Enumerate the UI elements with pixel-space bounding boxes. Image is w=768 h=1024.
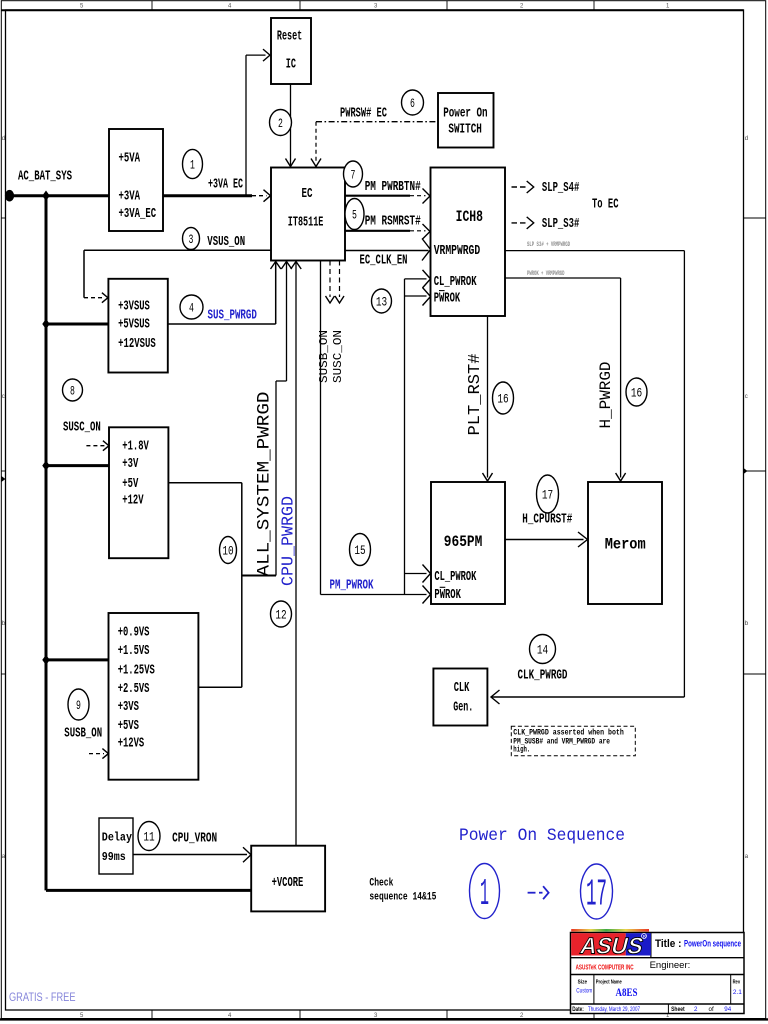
svg-text:9: 9 [76, 698, 81, 713]
svg-text:Title :: Title : [655, 938, 681, 950]
svg-text:PWROK: PWROK [434, 587, 461, 603]
block: 965PM northbridge [431, 482, 505, 604]
svg-text:965PM: 965PM [444, 533, 483, 551]
svg-text:15: 15 [354, 543, 365, 558]
svg-text:11: 11 [143, 829, 154, 844]
svg-text:VSUS_ON: VSUS_ON [207, 234, 245, 250]
svg-text:of: of [709, 1006, 714, 1013]
svg-text:+12V: +12V [122, 493, 144, 509]
svg-text:17: 17 [586, 874, 607, 917]
sequence bubble 16 (H_PWRGD) [626, 378, 647, 406]
svg-text:c: c [2, 394, 5, 400]
svg-text:PWROK: PWROK [434, 290, 461, 306]
wire: +1.8V block output [168, 482, 241, 484]
sequence bubble 4 [180, 295, 203, 319]
svg-text:+2.5VS: +2.5VS [118, 681, 150, 697]
svg-text:PWRSW# EC: PWRSW# EC [340, 106, 387, 122]
net label: ALL_SYSTEM_PWRGD (rotated) [254, 392, 274, 577]
wire: CLK_PWRGD into CLK Gen [492, 696, 684, 698]
wire: SLP_S3# dashed out of ICH8 [512, 222, 529, 224]
svg-text:SLP S3# + VRMPWRGD: SLP S3# + VRMPWRGD [527, 241, 570, 248]
svg-text:PM PWRBTN#: PM PWRBTN# [365, 179, 421, 195]
svg-text:+12VSUS: +12VSUS [118, 336, 156, 352]
svg-text:SUSC_ON: SUSC_ON [331, 330, 345, 383]
wire: bus branch to +3VSUS block [46, 323, 108, 326]
wire: PWROK+VRMPWRGD to H_PWRGD into Merom [505, 277, 621, 279]
svg-text:PowerOn sequence: PowerOn sequence [684, 939, 741, 949]
wire: H_CPURST# 965PM to Merom [505, 539, 584, 541]
wire: SUSB_ON dashed below EC [329, 261, 331, 298]
sequence bubble 6 [402, 90, 424, 115]
sequence bubble 1 (legend start) [470, 864, 500, 919]
svg-text:VRMPWRGD: VRMPWRGD [434, 243, 481, 259]
svg-text:To EC: To EC [592, 197, 619, 213]
svg-text:6: 6 [410, 96, 415, 111]
svg-text:SUSC_ON: SUSC_ON [63, 420, 101, 436]
wire: EC_CLK_EN to ICH8 VRMPWRGD pin [345, 250, 429, 252]
wire: SUSC_ON dashed below EC [339, 261, 341, 298]
svg-text:12: 12 [275, 607, 286, 622]
note box: CLK_PWRGD assertion condition [511, 726, 635, 756]
svg-text:SWITCH: SWITCH [448, 121, 482, 137]
block: Merom CPU [588, 482, 662, 604]
svg-text:IT8511E: IT8511E [288, 215, 324, 231]
junction: bus tap to +1.8V [42, 460, 49, 470]
sequence bubble 12 [271, 601, 292, 627]
svg-text:PLT_RST#: PLT_RST# [465, 353, 484, 435]
wire: regulator outputs join to ALL_SYSTEM_PWRGD [242, 575, 276, 577]
wire: PWRSW#_EC dashed drop into EC top [315, 122, 317, 163]
svg-text:SLP_S3#: SLP_S3# [542, 216, 579, 232]
svg-text:PM RSMRST#: PM RSMRST# [365, 214, 421, 230]
svg-text:AC_BAT_SYS: AC_BAT_SYS [18, 169, 72, 185]
svg-text:SUS_PWRGD: SUS_PWRGD [208, 308, 257, 324]
svg-text:CL_PWROK: CL_PWROK [434, 569, 476, 585]
svg-text:+3VA_EC: +3VA_EC [119, 206, 157, 222]
svg-text:4: 4 [189, 300, 194, 315]
svg-text:+5VA: +5VA [119, 151, 141, 167]
svg-text:CLK_PWRGD asserted when both: CLK_PWRGD asserted when both [513, 729, 624, 738]
wire: bus branch to +1.8V block [46, 464, 109, 467]
svg-text:3: 3 [189, 232, 194, 247]
svg-text:+3VS: +3VS [118, 699, 139, 715]
svg-text:+1.5VS: +1.5VS [118, 643, 150, 659]
block: Power On SWITCH [438, 93, 494, 148]
svg-text:Thursday, March 29, 2007: Thursday, March 29, 2007 [588, 1006, 640, 1013]
svg-text:d: d [745, 136, 748, 142]
title block [571, 929, 745, 1014]
net label: H_PWRGD (rotated) [597, 362, 615, 429]
net label: PLT_RST# (rotated) [465, 353, 484, 435]
svg-text:Engineer:: Engineer: [650, 960, 691, 971]
svg-text:99ms: 99ms [102, 850, 126, 864]
svg-text:13: 13 [376, 294, 387, 309]
svg-text:2: 2 [694, 1006, 698, 1013]
svg-text:SLP_S4#: SLP_S4# [542, 180, 579, 196]
svg-text:8: 8 [70, 383, 75, 398]
svg-text:Date:: Date: [572, 1006, 584, 1013]
svg-text:ASUSTeK COMPUTER INC: ASUSTeK COMPUTER INC [576, 964, 634, 971]
sequence bubble 2 [270, 110, 292, 136]
sequence bubble 16 (PLT_RST#) [493, 382, 514, 414]
block: EC IT8511E (U: embedded controller) [271, 168, 345, 261]
svg-text:16: 16 [497, 391, 508, 406]
svg-text:PWROK + VRMPWRGD: PWROK + VRMPWRGD [527, 270, 565, 277]
svg-text:EC_CLK_EN: EC_CLK_EN [360, 253, 408, 269]
net label: SUSC_ON (rotated) [331, 330, 345, 383]
svg-text:17: 17 [542, 487, 553, 502]
wire: PWRSW#_EC dash-dot from Power On SWITCH [316, 121, 438, 123]
svg-text:IC: IC [286, 57, 297, 73]
wire: SLP_S3#+VRMPWRGD to CLK_PWRGD [505, 250, 684, 252]
sequence bubble 5 [345, 199, 364, 230]
sequence bubble 14 [530, 635, 556, 664]
svg-text:PM_PWROK: PM_PWROK [330, 578, 374, 594]
svg-text:+3VA EC: +3VA EC [208, 177, 243, 193]
svg-text:1: 1 [480, 873, 489, 916]
svg-text:+VCORE: +VCORE [272, 875, 304, 891]
svg-text:2.1: 2.1 [733, 989, 742, 996]
wire: tap up to Reset IC [245, 55, 247, 196]
block: Reset IC [271, 18, 311, 84]
svg-text:A8ES: A8ES [616, 985, 638, 999]
svg-text:94: 94 [724, 1006, 731, 1013]
svg-text:+12VS: +12VS [118, 736, 145, 752]
wire: bus branch to +0.9VS block [46, 658, 109, 661]
wire: CPU_VRON Delay to +VCORE [133, 854, 247, 856]
svg-text:CPU_VRON: CPU_VRON [172, 831, 217, 847]
svg-text:Power On Sequence: Power On Sequence [459, 826, 625, 846]
sequence bubble 1 [183, 149, 203, 178]
sequence bubble 3 [183, 228, 200, 250]
svg-text:+3VA: +3VA [119, 189, 141, 205]
svg-text:c: c [745, 394, 748, 400]
net label: SUSB_ON (rotated) [317, 330, 331, 383]
svg-text:+1.8V: +1.8V [122, 439, 149, 455]
sequence bubble 15 [350, 534, 371, 566]
sequence bubble 10 [220, 537, 237, 564]
svg-text:Power On: Power On [443, 106, 487, 122]
svg-text:CLK: CLK [454, 680, 470, 696]
wire: stub to ICH8 PWROK [405, 295, 427, 297]
legend arrow [528, 892, 536, 894]
wire: AC_BAT_SYS vertical bus [45, 196, 48, 891]
svg-text:+5V: +5V [122, 476, 138, 492]
svg-text:Merom: Merom [605, 536, 646, 554]
wire: PM_PWROK from EC bottom [320, 261, 322, 595]
svg-text:10: 10 [222, 543, 233, 558]
block: Delay 99ms [99, 818, 133, 874]
svg-text:ASUS: ASUS [578, 933, 646, 959]
wire: PM RSMRST# EC to ICH8 [345, 230, 410, 232]
svg-text:2: 2 [278, 116, 283, 131]
svg-text:+1.25VS: +1.25VS [118, 663, 155, 679]
junction: bus tap to +0.9VS [42, 655, 49, 665]
svg-text:14: 14 [537, 642, 548, 657]
svg-text:+0.9VS: +0.9VS [118, 625, 150, 641]
wire: CPU_PWRGD from EC bottom to +VCORE [295, 263, 297, 846]
svg-text:+3VSUS: +3VSUS [118, 298, 150, 314]
svg-text:1: 1 [190, 157, 195, 172]
wire: ALL_SYSTEM_PWRGD into EC bottom [286, 263, 288, 382]
svg-text:d: d [2, 136, 5, 142]
svg-text:ALL_SYSTEM_PWRGD: ALL_SYSTEM_PWRGD [254, 392, 274, 577]
svg-text:Reset: Reset [277, 29, 302, 45]
sequence bubble 17 (legend end) [581, 864, 613, 919]
svg-text:Gen.: Gen. [453, 700, 473, 716]
svg-text:CPU_PWRGD: CPU_PWRGD [280, 496, 299, 586]
wire: SUS_PWRGD from +3VSUS to EC [168, 323, 276, 325]
svg-text:+5VS: +5VS [118, 718, 139, 734]
svg-text:Sheet: Sheet [671, 1006, 685, 1013]
junction: AC_BAT_SYS bus tap [42, 191, 49, 201]
junction: bus tap to +3VSUS [42, 319, 49, 329]
wire: PLT_RST# ICH8 to 965PM [487, 316, 489, 478]
wire: stub to 965PM CL_PWROK [405, 573, 427, 575]
sequence bubble 11 [138, 822, 160, 851]
svg-text:5: 5 [352, 207, 357, 222]
block: +5VA/+3VA/+3VA_EC regulator [109, 129, 163, 231]
svg-text:GRATIS - FREE: GRATIS - FREE [9, 992, 76, 1004]
block: +0.9VS..+12VS regulator [109, 613, 199, 780]
block: +VCORE regulator [251, 846, 325, 912]
svg-text:Check: Check [369, 878, 393, 890]
wire: +0.9VS block output [198, 686, 241, 688]
block: +3VSUS/+5VSUS/+12VSUS regulator [108, 279, 167, 373]
wire: bus branch to +VCORE block [46, 889, 251, 892]
wire: Reset IC output down to EC top [290, 84, 292, 166]
wire: AC_BAT_SYS bus to +5VA block [10, 194, 110, 197]
sequence bubble 9 [68, 689, 89, 720]
wire: VSUS_ON from EC left [84, 249, 271, 251]
svg-text:Rev: Rev [733, 979, 741, 985]
svg-text:H_CPURST#: H_CPURST# [522, 512, 572, 528]
svg-text:H_PWRGD: H_PWRGD [597, 362, 615, 429]
svg-text:SUSB_ON: SUSB_ON [64, 726, 102, 742]
block: +1.8V/+3V/+5V/+12V regulator [109, 427, 168, 558]
node: AC_BAT_SYS source dot on left border [5, 190, 14, 202]
svg-text:sequence 14&15: sequence 14&15 [369, 892, 436, 904]
sequence bubble 13 [372, 289, 392, 313]
sequence bubble 17 (H_CPURST#) [537, 475, 559, 513]
sequence bubble 7 [344, 161, 363, 187]
svg-text:SUSB_ON: SUSB_ON [317, 330, 331, 383]
svg-text:CLK_PWRGD: CLK_PWRGD [518, 668, 568, 684]
svg-text:Custom: Custom [576, 988, 592, 995]
svg-text:16: 16 [631, 385, 642, 400]
svg-text:high.: high. [513, 745, 530, 754]
svg-text:7: 7 [351, 167, 356, 182]
net label: CPU_PWRGD (rotated, blue) [280, 496, 299, 586]
svg-text:CL_PWROK: CL_PWROK [434, 274, 477, 290]
sequence bubble 8 [63, 379, 83, 401]
wire: PM PWRBTN# EC to ICH8 [345, 195, 410, 197]
svg-text:Delay: Delay [102, 830, 132, 844]
svg-text:EC: EC [302, 186, 313, 202]
wire: PWROK chain vertical ICH8-965PM [404, 279, 406, 595]
wire: stub to ICH8 CL_PWROK [405, 278, 427, 280]
svg-text:+3V: +3V [122, 456, 138, 472]
svg-text:+5VSUS: +5VSUS [118, 317, 150, 333]
svg-text:Size: Size [578, 979, 588, 985]
wire: SLP_S4# dashed out of ICH8 [512, 186, 529, 188]
block: ICH8 southbridge [431, 168, 506, 317]
svg-text:ICH8: ICH8 [456, 208, 483, 226]
wire: +3VA_EC output to EC (thick then dashed arrow) [163, 194, 252, 197]
block: CLK Gen. [433, 669, 487, 726]
